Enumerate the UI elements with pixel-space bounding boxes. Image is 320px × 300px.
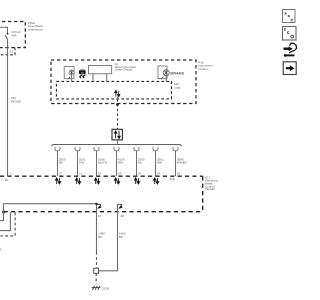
dashed stub wire to left edge <box>1 212 16 236</box>
svg-text:BRAKE: BRAKE <box>170 70 184 75</box>
module arrows wire3 <box>95 178 100 184</box>
fuse block X50A box <box>0 22 25 48</box>
telltale lamp (left indicator) <box>64 67 74 82</box>
svg-text:29: 29 <box>177 171 181 175</box>
connector bus bar <box>52 145 182 147</box>
svg-text:F1: F1 <box>10 49 14 53</box>
ground wire 1450 BK pin 13 (left) <box>95 203 101 269</box>
svg-text:40A: 40A <box>11 34 16 38</box>
wire from left edge up to internal rail <box>0 204 97 221</box>
junction dot <box>2 211 5 214</box>
A30 logic box <box>56 81 171 99</box>
P9 Driver Information Center Display label <box>115 63 137 72</box>
module arrows wire5 <box>135 178 140 184</box>
bus wire 6 2501 WH pin 14 <box>155 151 157 176</box>
toolbar icon: forward arrow box <box>283 62 296 75</box>
svg-text:26: 26 <box>138 171 142 175</box>
K17 module top boundary <box>0 175 203 177</box>
toolbar icon: hyperlink box 2 <box>283 27 297 41</box>
svg-text:B+: B+ <box>5 178 9 182</box>
instrument cluster P16 box <box>51 60 196 104</box>
svg-text:BK: BK <box>119 235 123 239</box>
svg-text:IGN: IGN <box>170 177 175 181</box>
pin F1 label <box>10 49 14 53</box>
svg-text:BU/YE: BU/YE <box>98 161 107 165</box>
svg-text:13: 13 <box>79 171 83 175</box>
bus wire 1 2500 BU pin 27 <box>57 151 59 176</box>
svg-text:Module: Module <box>205 187 215 191</box>
K17 module right boundary <box>202 176 204 212</box>
bus wire 5 2500 BU pin 26 <box>136 151 138 176</box>
bus wire 2 2501 WH pin 13 <box>77 151 79 176</box>
wire from left edge to module bottom <box>0 212 10 230</box>
svg-text:13: 13 <box>98 214 102 218</box>
K17 label <box>205 176 219 192</box>
K17 module bottom boundary <box>4 211 203 213</box>
A30 Logic label <box>174 82 182 89</box>
connector box X1 below fuse block <box>0 48 15 55</box>
ABS skid icon <box>79 69 86 78</box>
svg-text:WH: WH <box>118 161 123 165</box>
svg-text:Underhood: Underhood <box>28 28 43 32</box>
svg-text:28: 28 <box>118 171 122 175</box>
pin 1 B+ label <box>5 171 11 181</box>
bus wire 4 6106 WH pin 28 <box>116 151 118 176</box>
module arrows wire1 <box>56 178 61 184</box>
module arrows wire4 <box>115 178 120 184</box>
svg-text:20: 20 <box>98 171 102 175</box>
bus wire 3 6108 BU/YE pin 20 <box>96 151 98 176</box>
toolbar icon: jump arrow <box>284 43 297 57</box>
module arrows wire2 <box>76 178 81 184</box>
svg-text:WH: WH <box>157 161 162 165</box>
bus wire 7 5986 WH/BU pin 29 <box>175 151 177 176</box>
terminal U cups <box>55 147 178 151</box>
svg-text:WH/BU: WH/BU <box>177 161 187 165</box>
dashed wire to ground <box>95 273 97 284</box>
svg-text:Cluster: Cluster <box>198 67 208 71</box>
serial data connector box <box>112 129 122 144</box>
module arrows wire6 <box>154 178 159 184</box>
svg-text:WH: WH <box>79 161 84 165</box>
fuse block label X50A Fuse Block - Underhood <box>28 21 45 32</box>
serial data link line <box>116 97 119 129</box>
toolbar icon: hyperlink box 1 <box>283 10 296 23</box>
svg-text:G108: G108 <box>102 286 110 290</box>
svg-text:c: c <box>0 247 2 252</box>
splice S-box <box>94 268 99 273</box>
ground G108 <box>92 286 101 290</box>
svg-text:14: 14 <box>157 171 161 175</box>
svg-text:BK: BK <box>98 235 102 239</box>
fuse label F37UA 40A <box>11 30 20 37</box>
svg-text:38: 38 <box>121 214 125 218</box>
BRAKE telltale lamp <box>158 66 169 81</box>
fuse F37UA 40A <box>0 27 9 47</box>
svg-text:Center Display: Center Display <box>115 68 133 72</box>
svg-text:BU: BU <box>138 161 142 165</box>
DIC display P9 <box>88 66 111 82</box>
wire 240 RD/WE from fuse to K17 <box>7 48 9 176</box>
svg-text:RD/WE: RD/WE <box>11 99 21 103</box>
svg-text:Logic: Logic <box>174 86 182 90</box>
ground wire 1450 BK pin 38 (right) <box>99 204 123 271</box>
svg-text:BU: BU <box>59 161 63 165</box>
P16 label <box>198 60 212 71</box>
serial data arrows inside A30 <box>115 91 120 97</box>
wire label 240 RD/WE <box>11 96 21 103</box>
svg-text:27: 27 <box>59 171 63 175</box>
